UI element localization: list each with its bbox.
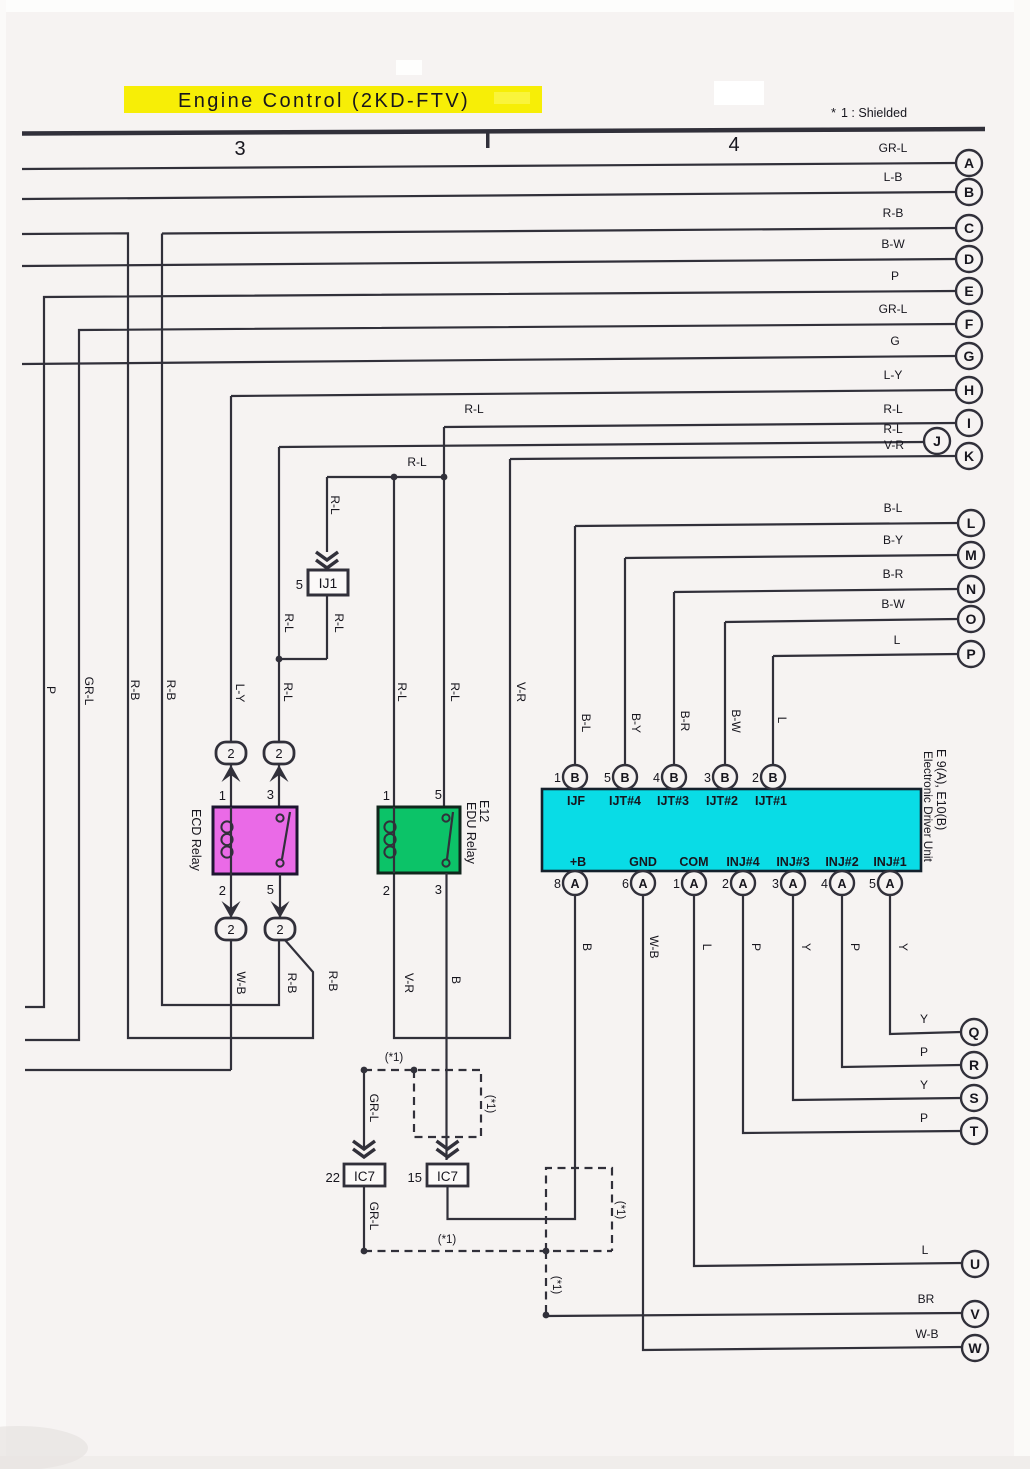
svg-text:B-W: B-W <box>881 597 905 611</box>
svg-text:B-Y: B-Y <box>629 713 643 733</box>
svg-text:B-W: B-W <box>881 237 905 251</box>
wire L from COM pin to connector U <box>694 895 962 1266</box>
svg-text:5: 5 <box>869 877 876 891</box>
svg-text:B: B <box>964 184 974 200</box>
svg-text:Y: Y <box>920 1012 928 1026</box>
node K (connector) <box>956 443 982 469</box>
svg-text:4: 4 <box>653 771 660 785</box>
svg-text:GND: GND <box>629 855 657 869</box>
svg-text:EDU Relay: EDU Relay <box>464 802 478 865</box>
svg-text:B: B <box>768 771 777 785</box>
wire I R-L <box>444 402 956 427</box>
svg-text:B-L: B-L <box>579 714 593 733</box>
svg-text:B: B <box>580 943 594 951</box>
svg-text:IJT#1: IJT#1 <box>755 794 787 808</box>
svg-text:R-L: R-L <box>332 613 346 633</box>
svg-text:G: G <box>964 348 975 364</box>
node Q (connector) <box>961 1019 987 1045</box>
svg-text:5: 5 <box>435 787 442 802</box>
node O (connector) <box>958 606 984 632</box>
svg-text:D: D <box>964 251 974 267</box>
svg-text:B: B <box>620 771 629 785</box>
junction block IJ1 <box>296 552 348 595</box>
wire GR-L below IC7 22 <box>361 1186 381 1254</box>
svg-text:P: P <box>749 943 763 951</box>
junction block IC7 (pin 22) <box>326 1164 385 1186</box>
node H (connector) <box>956 377 982 403</box>
svg-text:IC7: IC7 <box>437 1169 458 1184</box>
shield junction node (*1) above IC7 22 <box>361 1052 418 1073</box>
wire P from INJ#4 pin to connector T <box>743 895 961 1133</box>
svg-text:Y: Y <box>896 943 910 951</box>
arrow into connector (ECD pin 1) <box>230 765 232 808</box>
svg-text:R-L: R-L <box>281 682 295 702</box>
connector 2 (below ECD relay pin 2) <box>216 918 246 940</box>
svg-text:A: A <box>638 877 647 891</box>
svg-text:2: 2 <box>383 883 390 898</box>
svg-text:ECD Relay: ECD Relay <box>189 809 203 872</box>
svg-text:INJ#4: INJ#4 <box>726 855 759 869</box>
svg-text:(*1): (*1) <box>550 1276 562 1295</box>
svg-text:4: 4 <box>821 877 828 891</box>
wire O B-W <box>725 597 958 765</box>
svg-text:B-W: B-W <box>729 709 743 733</box>
node L (connector) <box>958 510 984 536</box>
svg-text:R-B: R-B <box>128 680 142 701</box>
wire W-B from ECD pin 2 to page edge <box>25 940 248 1070</box>
svg-text:R-L: R-L <box>464 402 484 416</box>
svg-text:L-Y: L-Y <box>884 368 903 382</box>
dashed shield line to box <box>364 1069 481 1071</box>
svg-text:4: 4 <box>728 134 739 156</box>
svg-text:INJ#2: INJ#2 <box>825 855 858 869</box>
EDU relay pin numbers 1,5 <box>383 787 442 803</box>
note: *1 Shielded <box>831 105 907 120</box>
node S (connector) <box>961 1085 987 1111</box>
svg-text:Electronic Driver Unit: Electronic Driver Unit <box>921 751 935 863</box>
svg-text:1 : Shielded: 1 : Shielded <box>841 106 907 120</box>
svg-text:B: B <box>449 976 463 984</box>
svg-text:E: E <box>964 283 973 299</box>
ECD relay pin numbers 2,5 <box>219 882 274 898</box>
svg-text:L-Y: L-Y <box>233 684 247 703</box>
svg-text:8: 8 <box>554 877 561 891</box>
svg-text:I: I <box>967 415 971 431</box>
ECD relay coil <box>230 807 232 874</box>
arrow into connector (ECD pin 3) <box>278 765 280 808</box>
arrow into connector (ECD pin 2) <box>230 874 232 918</box>
svg-text:22: 22 <box>326 1170 340 1185</box>
ECU pin 3 (B connector) <box>704 765 737 789</box>
svg-text:*: * <box>831 105 836 120</box>
node U (connector) <box>962 1251 988 1277</box>
svg-text:Y: Y <box>799 943 813 951</box>
svg-text:W: W <box>968 1340 982 1356</box>
node D (connector) <box>956 246 982 272</box>
svg-text:H: H <box>964 382 974 398</box>
wire C R-B (to connector C) <box>162 206 956 1005</box>
svg-text:2: 2 <box>752 771 759 785</box>
svg-text:O: O <box>966 611 977 627</box>
ECU pin 2 (B connector) <box>752 765 785 789</box>
svg-text:GR-L: GR-L <box>367 1094 381 1123</box>
wire B from +B pin to IC7 15 <box>448 895 595 1219</box>
svg-text:A: A <box>570 877 579 891</box>
wire BR to connector V <box>546 1292 962 1316</box>
svg-text:3: 3 <box>267 787 274 802</box>
svg-text:K: K <box>964 448 974 464</box>
svg-text:3: 3 <box>772 877 779 891</box>
svg-text:A: A <box>788 877 797 891</box>
svg-text:1: 1 <box>673 877 680 891</box>
junction block IC7 (pin 15) <box>408 1164 468 1186</box>
svg-text:L: L <box>967 515 976 531</box>
node W (connector) <box>962 1335 988 1361</box>
connector 2 (above ECD relay pin 3) <box>264 742 294 764</box>
connector 2 (below ECD relay pin 5) <box>265 918 295 940</box>
svg-text:GR-L: GR-L <box>879 302 908 316</box>
svg-text:2: 2 <box>722 877 729 891</box>
svg-text:U: U <box>970 1256 980 1272</box>
node R (connector) <box>961 1052 987 1078</box>
svg-text:F: F <box>965 316 974 332</box>
node B (connector) <box>956 179 982 205</box>
ECU box E 9(A), E10(B) Electronic Driver Unit <box>542 749 948 871</box>
ECU pin 6 (A connector) <box>622 871 655 895</box>
svg-text:GR-L: GR-L <box>879 141 908 155</box>
svg-text:GR-L: GR-L <box>82 677 96 706</box>
svg-text:W-B: W-B <box>647 935 661 958</box>
svg-text:R-B: R-B <box>164 680 178 701</box>
svg-text:5: 5 <box>296 577 303 592</box>
node G (connector) <box>956 343 982 369</box>
svg-text:P: P <box>966 646 975 662</box>
svg-text:6: 6 <box>622 877 629 891</box>
wire Y from INJ#3 pin to connector S <box>793 895 961 1100</box>
top border rule <box>22 129 985 134</box>
R-L junction net above EDU relay / IJ1 <box>276 427 448 807</box>
svg-text:R-B: R-B <box>285 973 299 994</box>
svg-text:B: B <box>669 771 678 785</box>
wire K V-R <box>394 438 956 1038</box>
svg-text:IJT#4: IJT#4 <box>609 794 641 808</box>
svg-text:V-R: V-R <box>514 682 528 702</box>
svg-text:V-R: V-R <box>402 973 416 993</box>
svg-text:Y: Y <box>920 1078 928 1092</box>
svg-text:W-B: W-B <box>915 1327 938 1341</box>
svg-text:R: R <box>969 1057 979 1073</box>
wire GR-L into IC7 22 <box>353 1070 381 1157</box>
svg-text:IJ1: IJ1 <box>319 575 338 591</box>
ECU pin 3 (A connector) <box>772 871 805 895</box>
svg-text:R-L: R-L <box>407 455 427 469</box>
title highlight: Engine Control (2KD-FTV) <box>124 86 542 113</box>
node M (connector) <box>958 542 984 568</box>
relay ECD Relay <box>189 807 297 874</box>
svg-text:3: 3 <box>435 882 442 897</box>
svg-text:P: P <box>891 269 899 283</box>
column tick <box>486 131 490 148</box>
left column wire labels <box>44 677 528 706</box>
node I (connector) <box>956 410 982 436</box>
svg-text:L: L <box>775 717 789 724</box>
svg-text:V-R: V-R <box>884 438 904 452</box>
wire H L-Y <box>231 368 956 742</box>
svg-text:R-L: R-L <box>448 682 462 702</box>
node J (connector) <box>924 428 950 454</box>
svg-text:L-B: L-B <box>884 170 903 184</box>
wire M B-Y <box>625 533 958 765</box>
svg-text:1: 1 <box>383 788 390 803</box>
dashed shield drain line <box>364 1234 612 1251</box>
svg-text:INJ#3: INJ#3 <box>776 855 809 869</box>
svg-text:B: B <box>720 771 729 785</box>
svg-text:15: 15 <box>408 1170 422 1185</box>
svg-text:L: L <box>894 633 901 647</box>
wire P L <box>773 633 958 765</box>
node C (connector) <box>956 215 982 241</box>
svg-text:2: 2 <box>275 746 282 761</box>
svg-text:M: M <box>965 547 977 563</box>
svg-text:A: A <box>885 877 894 891</box>
EDU relay pin numbers 2,3 <box>383 882 442 898</box>
svg-text:INJ#1: INJ#1 <box>873 855 906 869</box>
svg-text:P: P <box>920 1045 928 1059</box>
svg-text:A: A <box>837 877 846 891</box>
svg-text:P: P <box>920 1111 928 1125</box>
svg-text:R-L: R-L <box>883 402 903 416</box>
wire W-B from GND pin to connector W <box>643 895 962 1350</box>
svg-text:R-L: R-L <box>883 422 903 436</box>
ECU pin 4 (B connector) <box>653 765 686 789</box>
arrow into IC7 15 <box>437 1141 459 1157</box>
svg-text:Q: Q <box>969 1024 980 1040</box>
wire C R-B (stub from page edge, down left column) <box>22 233 313 1038</box>
svg-text:T: T <box>970 1123 979 1139</box>
svg-text:V: V <box>970 1306 980 1322</box>
svg-text:+B: +B <box>570 855 586 869</box>
ECU pin 5 (B connector) <box>604 765 637 789</box>
svg-text:IJF: IJF <box>567 794 585 808</box>
node A (connector) <box>956 150 982 176</box>
svg-text:P: P <box>44 686 58 694</box>
ECU pin 4 (A connector) <box>821 871 854 895</box>
node N (connector) <box>958 576 984 602</box>
svg-text:(*1): (*1) <box>614 1201 626 1220</box>
svg-text:Engine Control (2KD-FTV): Engine Control (2KD-FTV) <box>178 90 470 112</box>
relay E12 EDU Relay <box>378 800 491 873</box>
svg-text:A: A <box>738 877 747 891</box>
wire B from EDU pin 3 down to IC7 <box>447 873 464 1160</box>
svg-text:COM: COM <box>679 855 708 869</box>
wire G G <box>22 334 956 364</box>
svg-text:5: 5 <box>267 882 274 897</box>
wire F GR-L <box>25 302 956 1040</box>
svg-text:BR: BR <box>918 1292 935 1306</box>
svg-text:2: 2 <box>219 883 226 898</box>
wire J R-L <box>279 422 924 742</box>
ECD relay pin numbers 1,3 <box>219 787 274 803</box>
node F (connector) <box>956 311 982 337</box>
node E (connector) <box>956 278 982 304</box>
svg-text:B-R: B-R <box>883 567 904 581</box>
svg-text:B: B <box>570 771 579 785</box>
svg-text:E12: E12 <box>477 800 491 822</box>
shield dashed box around B wire (upper) <box>414 1070 496 1137</box>
svg-text:3: 3 <box>234 138 245 160</box>
ECU pin 8 (A connector) <box>554 871 587 895</box>
ECU pin 1 (B connector) <box>554 765 587 789</box>
wire Y from INJ#1 pin to connector Q <box>890 895 961 1034</box>
svg-text:2: 2 <box>227 746 234 761</box>
svg-text:(*1): (*1) <box>438 1234 457 1246</box>
svg-text:R-B: R-B <box>326 971 340 992</box>
wire B L-B <box>22 170 956 199</box>
dashed shield drain to connector V <box>543 1251 562 1318</box>
ECU pin 1 (A connector) <box>673 871 706 895</box>
ECU pin 5 (A connector) <box>869 871 902 895</box>
svg-text:S: S <box>969 1090 978 1106</box>
wire P from INJ#2 pin to connector R <box>842 895 961 1067</box>
svg-text:(*1): (*1) <box>385 1052 404 1064</box>
svg-text:R-L: R-L <box>395 682 409 702</box>
wire A GR-L <box>22 141 956 169</box>
arrow into connector (ECD pin 5) <box>279 874 281 918</box>
svg-text:E 9(A), E10(B): E 9(A), E10(B) <box>934 749 948 830</box>
ECU pin 2 (A connector) <box>722 871 755 895</box>
EDU relay coil <box>393 807 395 873</box>
svg-text:R-L: R-L <box>282 613 296 633</box>
wire D B-W <box>22 237 956 266</box>
svg-text:5: 5 <box>604 771 611 785</box>
shield dashed box around B wire (lower) <box>543 1168 626 1254</box>
node V (connector) <box>962 1301 988 1327</box>
svg-text:G: G <box>890 334 899 348</box>
svg-text:1: 1 <box>554 771 561 785</box>
svg-text:IJT#3: IJT#3 <box>657 794 689 808</box>
svg-text:L: L <box>922 1243 929 1257</box>
svg-text:2: 2 <box>227 922 234 937</box>
svg-text:L: L <box>700 944 714 951</box>
svg-text:1: 1 <box>219 788 226 803</box>
svg-text:GR-L: GR-L <box>367 1202 381 1231</box>
svg-text:B-Y: B-Y <box>883 533 903 547</box>
svg-text:A: A <box>689 877 698 891</box>
svg-text:R-L: R-L <box>328 495 342 515</box>
svg-text:3: 3 <box>704 771 711 785</box>
svg-text:IJT#2: IJT#2 <box>706 794 738 808</box>
svg-text:IC7: IC7 <box>354 1169 375 1184</box>
wire N B-R <box>674 567 958 765</box>
svg-text:A: A <box>964 155 974 171</box>
svg-text:J: J <box>933 433 941 449</box>
svg-text:B-L: B-L <box>884 501 903 515</box>
connector 2 (above ECD relay pin 1) <box>216 742 246 764</box>
svg-text:B-R: B-R <box>678 711 692 732</box>
svg-text:(*1): (*1) <box>484 1095 496 1114</box>
wire R-B labels below ECD pin 5 <box>285 971 340 994</box>
svg-text:P: P <box>848 943 862 951</box>
ECD relay switch contacts <box>276 814 283 821</box>
wire E P <box>25 269 956 1007</box>
svg-text:N: N <box>966 581 976 597</box>
svg-text:R-B: R-B <box>883 206 904 220</box>
svg-text:W-B: W-B <box>234 971 248 994</box>
EDU relay switch contacts <box>442 814 449 821</box>
wire L B-L <box>575 501 958 765</box>
node T (connector) <box>961 1118 987 1144</box>
svg-text:2: 2 <box>276 922 283 937</box>
svg-text:C: C <box>964 220 974 236</box>
node P (connector) <box>958 641 984 667</box>
